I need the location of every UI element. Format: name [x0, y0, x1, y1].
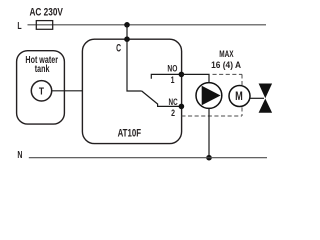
hot water tank box: [17, 51, 65, 124]
contact NO stub: [151, 74, 181, 78]
svg-text:M: M: [235, 91, 243, 103]
motor M1 valve actuator: [229, 86, 250, 107]
pump rotor triangle: [202, 86, 221, 105]
svg-text:T: T: [39, 86, 44, 98]
junction on L: [124, 22, 130, 28]
svg-text:L: L: [17, 20, 21, 32]
wire pump to N: [208, 108, 210, 157]
wire L line: [28, 24, 267, 26]
load group dashed box MAX 16(4)A: [181, 74, 242, 116]
svg-text:16 (4) A: 16 (4) A: [211, 59, 241, 70]
sensor T1 thermostat: [31, 81, 51, 101]
svg-text:MAX: MAX: [219, 49, 234, 60]
svg-text:tank: tank: [35, 63, 50, 75]
wire T to AT10F: [52, 90, 83, 92]
switch lever SW1: [142, 91, 158, 104]
thermostat box U1 AT10F: [82, 39, 181, 143]
svg-text:NO: NO: [167, 63, 177, 73]
node junction on N: [206, 155, 212, 161]
svg-text:NC: NC: [169, 97, 178, 108]
wire M to valve: [250, 97, 264, 99]
wire L to C: [126, 25, 128, 39]
svg-text:2: 2: [171, 108, 175, 118]
svg-text:AT10F: AT10F: [118, 127, 142, 140]
valve V1 body: [259, 84, 273, 113]
node C terminal: [124, 36, 130, 42]
svg-text:1: 1: [171, 75, 175, 85]
node terminal 1 NO: [179, 72, 185, 78]
pump P1: [196, 83, 222, 109]
fuse F1: [36, 21, 52, 30]
wire N line: [29, 157, 267, 159]
svg-text:AC 230V: AC 230V: [29, 7, 63, 19]
node terminal 2 NC: [179, 104, 185, 110]
svg-text:N: N: [17, 149, 22, 161]
wire C to switch common: [127, 39, 142, 91]
contact NC stub: [158, 104, 182, 107]
wire NO to pump: [181, 74, 209, 82]
svg-text:C: C: [116, 42, 121, 54]
